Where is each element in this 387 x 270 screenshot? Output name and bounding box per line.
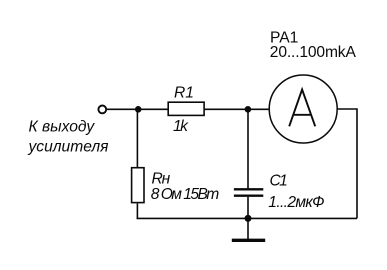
- resistor R1: [168, 102, 204, 115]
- wire: terminal to node A: [107, 108, 138, 110]
- wire: Rn to bottom rail: [136, 204, 138, 219]
- svg-text:усилителя: усилителя: [28, 139, 110, 156]
- node A (junction dot): [135, 106, 142, 113]
- capacitor C1 bottom plate: [234, 195, 263, 197]
- node: input terminal: [98, 106, 106, 114]
- resistor Rn: [132, 168, 144, 203]
- svg-text:С1: С1: [270, 172, 288, 189]
- svg-text:1k: 1k: [173, 118, 189, 135]
- svg-text:1...2мкФ: 1...2мкФ: [268, 194, 324, 211]
- ammeter PA1 body: [269, 75, 337, 143]
- svg-text:20...100mkA: 20...100mkA: [270, 44, 357, 61]
- node C (junction dot on bottom rail): [245, 215, 252, 222]
- wire: bottom rail: [137, 217, 358, 219]
- wire: node A to resistor R1: [138, 108, 168, 110]
- node B (junction dot): [245, 106, 252, 113]
- ground: [232, 239, 265, 242]
- ammeter A glyph: [289, 90, 315, 127]
- wire: node B down to capacitor C1: [247, 109, 249, 189]
- svg-text:R1: R1: [174, 85, 194, 102]
- wire: ammeter to right corner and down: [337, 109, 357, 218]
- svg-text:8 Ом 15Вт: 8 Ом 15Вт: [151, 186, 220, 203]
- wire: node C to ground: [247, 218, 249, 239]
- capacitor C1 top plate: [234, 188, 263, 190]
- wire: C1 to bottom rail: [247, 197, 249, 219]
- svg-text:К выходу: К выходу: [29, 119, 96, 136]
- svg-text:Rн: Rн: [152, 170, 171, 187]
- wire: node A down to resistor Rn: [136, 109, 138, 167]
- wire: R1 to node B: [205, 108, 248, 110]
- wire: node B to ammeter PA1: [248, 108, 269, 110]
